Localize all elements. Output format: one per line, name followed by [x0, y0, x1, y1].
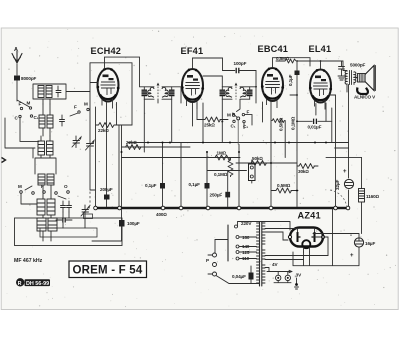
- svg-text:1MΩ: 1MΩ: [217, 151, 227, 156]
- svg-text:OREM - F 54: OREM - F 54: [73, 265, 143, 277]
- capacitor 32uF: [335, 169, 354, 190]
- tube EBC41: [261, 68, 284, 109]
- tube ECH42: [96, 68, 119, 109]
- scan speckle: [5, 29, 395, 307]
- wire EBC41 down: [263, 102, 272, 207]
- tube EL41: [309, 69, 332, 110]
- svg-text:0,1MΩ: 0,1MΩ: [291, 116, 296, 130]
- ground bus thick: [96, 207, 351, 209]
- svg-text:DH 56-99: DH 56-99: [26, 281, 49, 287]
- svg-text:ALNICO V: ALNICO V: [354, 95, 376, 100]
- svg-text:8000pF: 8000pF: [21, 76, 37, 81]
- coil L2b: [38, 136, 53, 158]
- wire junction verticals: [158, 76, 256, 207]
- svg-text:C₁: C₁: [34, 115, 39, 120]
- wire EF41 top to 100pF: [193, 58, 235, 71]
- svg-text:F: F: [247, 110, 250, 115]
- wire h1: [116, 124, 132, 126]
- svg-text:M: M: [227, 113, 231, 118]
- resistor 50k: [251, 156, 267, 166]
- lamp dial lights: [265, 268, 302, 290]
- transformer IF2: [220, 83, 253, 100]
- capacitor padding: [60, 115, 65, 126]
- wire B+ to filter: [313, 234, 359, 239]
- svg-text:F: F: [19, 102, 22, 107]
- node margin contact: [2, 158, 6, 163]
- svg-text:0,5MΩ: 0,5MΩ: [279, 117, 284, 131]
- switch mains: [206, 253, 259, 284]
- wire 220V top: [238, 222, 291, 231]
- wire grid vertical: [284, 121, 286, 158]
- svg-text:1160Ω: 1160Ω: [366, 194, 380, 199]
- wire EL41 plate rail: [276, 61, 343, 71]
- box OREM F54: [69, 261, 147, 278]
- wire double vertical: [119, 125, 122, 207]
- svg-text:50kΩ: 50kΩ: [252, 156, 263, 161]
- electrolytic vertical: [249, 164, 256, 181]
- resistor 1160ohm field: [359, 189, 380, 234]
- speaker: [354, 66, 376, 100]
- capacitor 0,1uF coupling: [288, 61, 300, 191]
- wire HT secondary to plates: [265, 229, 298, 241]
- capacitor 0,04uF mains: [232, 266, 254, 284]
- svg-text:22kΩ: 22kΩ: [98, 128, 109, 133]
- svg-text:EF41: EF41: [181, 46, 204, 56]
- transformer IF1: [142, 83, 175, 100]
- wire osc bottoms: [21, 194, 85, 228]
- svg-text:M: M: [18, 184, 22, 189]
- capacitor 0,01uF: [296, 104, 332, 143]
- trimmer arrow: [72, 136, 81, 148]
- resistor 30k: [297, 164, 318, 175]
- capacitor 8000pF: [14, 76, 20, 81]
- svg-text:EBC41: EBC41: [258, 44, 289, 54]
- svg-text:125: 125: [242, 250, 250, 255]
- svg-text:0,1µF: 0,1µF: [145, 183, 157, 188]
- svg-text:25kΩ: 25kΩ: [204, 123, 215, 128]
- svg-text:0,5MΩ: 0,5MΩ: [277, 183, 291, 188]
- wire EBC41 EL41 tops: [273, 58, 311, 67]
- wire ECH42 pin down: [116, 103, 118, 126]
- svg-text:400Ω: 400Ω: [156, 212, 167, 217]
- capacitor 0,1uF b: [189, 152, 210, 207]
- svg-text:250µF: 250µF: [210, 193, 223, 198]
- svg-text:0,04µF: 0,04µF: [232, 274, 246, 279]
- svg-text:100pF: 100pF: [234, 61, 247, 66]
- svg-text:0,01µF: 0,01µF: [308, 125, 322, 130]
- wire EF41 down: [193, 103, 204, 143]
- svg-text:32µF: 32µF: [335, 180, 340, 190]
- coil L3 osc: [38, 174, 54, 185]
- svg-text:,3V: ,3V: [295, 273, 303, 278]
- wire antenna down: [16, 64, 18, 75]
- resistor 0,5M vertical: [208, 158, 247, 178]
- svg-text:160: 160: [242, 235, 250, 240]
- wire ECH42 top box: [90, 57, 144, 125]
- wire rail y163: [236, 162, 297, 164]
- wire osc section: [35, 158, 56, 174]
- antenna A: [12, 47, 22, 63]
- wire EL41 cathode: [326, 95, 336, 121]
- wire left rail: [90, 63, 98, 207]
- svg-text:F: F: [74, 105, 77, 110]
- wire selector bar: [227, 225, 229, 261]
- svg-text:+: +: [343, 169, 347, 175]
- svg-text:+: +: [350, 253, 354, 259]
- svg-text:0,1µF: 0,1µF: [288, 74, 293, 86]
- capacitor osc pair: [61, 201, 72, 212]
- wire left block: [5, 118, 39, 148]
- svg-text:MF 467 kHz: MF 467 kHz: [14, 258, 43, 264]
- dashed filament arc: [330, 190, 347, 207]
- wire ECH42 cathode down: [106, 103, 108, 195]
- svg-text:AZ41: AZ41: [298, 211, 321, 221]
- node rail junctions: [121, 94, 328, 191]
- node bus junctions: [94, 206, 350, 210]
- coil L2: [39, 104, 53, 136]
- tube EF41: [181, 69, 204, 110]
- trimmer osc: [81, 205, 90, 217]
- resistor 25k: [197, 117, 228, 128]
- svg-text:C₁: C₁: [231, 124, 236, 129]
- wire antenna to coil box: [16, 81, 18, 102]
- svg-text:O: O: [64, 184, 68, 189]
- switch contacts row2: [18, 184, 69, 199]
- svg-text:0,1µF: 0,1µF: [189, 182, 201, 187]
- wire rail ties: [326, 148, 362, 157]
- wire rail y142: [128, 142, 349, 144]
- svg-text:ECH42: ECH42: [91, 46, 122, 56]
- svg-text:M: M: [84, 102, 88, 107]
- coil L4: [37, 199, 55, 215]
- svg-text:0,5MΩ: 0,5MΩ: [276, 56, 290, 61]
- capacitor 100uF below bus: [92, 209, 140, 241]
- capacitor 200uF: [100, 187, 113, 207]
- resistor 0,5M plate: [276, 56, 296, 63]
- resistor 22k osc: [122, 140, 146, 150]
- node gang dashed: [89, 110, 91, 206]
- svg-text:0,1MΩ: 0,1MΩ: [214, 172, 228, 177]
- capacitor 0,1uF a: [145, 183, 165, 207]
- svg-text:30kΩ: 30kΩ: [298, 169, 309, 174]
- wire IF1 down: [144, 87, 181, 183]
- svg-text:P: P: [206, 258, 209, 263]
- resistor 0,5M grid: [271, 117, 285, 131]
- wire right rails: [336, 85, 362, 207]
- svg-text:R: R: [18, 281, 22, 287]
- capacitor 250uF: [210, 192, 231, 198]
- capacitor 5000pF + ground: [338, 61, 366, 80]
- coil L5: [37, 218, 57, 231]
- transformer T1 power: [257, 222, 266, 286]
- switch band selector S1a: [15, 100, 90, 121]
- tube AZ41: [288, 228, 324, 253]
- svg-text:200µF: 200µF: [100, 187, 113, 192]
- svg-text:EL41: EL41: [309, 44, 332, 54]
- switch band selector S2: [221, 100, 252, 145]
- output transformer T2: [343, 71, 358, 93]
- wire return line: [293, 209, 359, 266]
- resistor 1M: [215, 151, 231, 161]
- wire rail y152: [122, 147, 241, 158]
- logo badge: [16, 278, 50, 287]
- capacitor tuning gang 1: [87, 144, 94, 147]
- capacitor 100pF: [234, 61, 257, 103]
- svg-text:16µF: 16µF: [365, 241, 375, 246]
- box oscillator shield: [15, 218, 123, 246]
- svg-text:F: F: [41, 184, 44, 189]
- capacitor 16uF: [350, 233, 375, 259]
- svg-text:5000pF: 5000pF: [350, 63, 366, 68]
- coil L1 antenna: [33, 84, 90, 99]
- wire coil feeds: [20, 99, 51, 241]
- svg-text:-: -: [350, 233, 352, 239]
- svg-text:100µF: 100µF: [127, 221, 140, 226]
- node mains taps: [235, 221, 257, 261]
- wire heater 4V: [265, 237, 328, 267]
- svg-text:M: M: [27, 101, 31, 106]
- resistor 22k grid: [96, 123, 119, 134]
- resistor 0,5M bias: [271, 183, 298, 207]
